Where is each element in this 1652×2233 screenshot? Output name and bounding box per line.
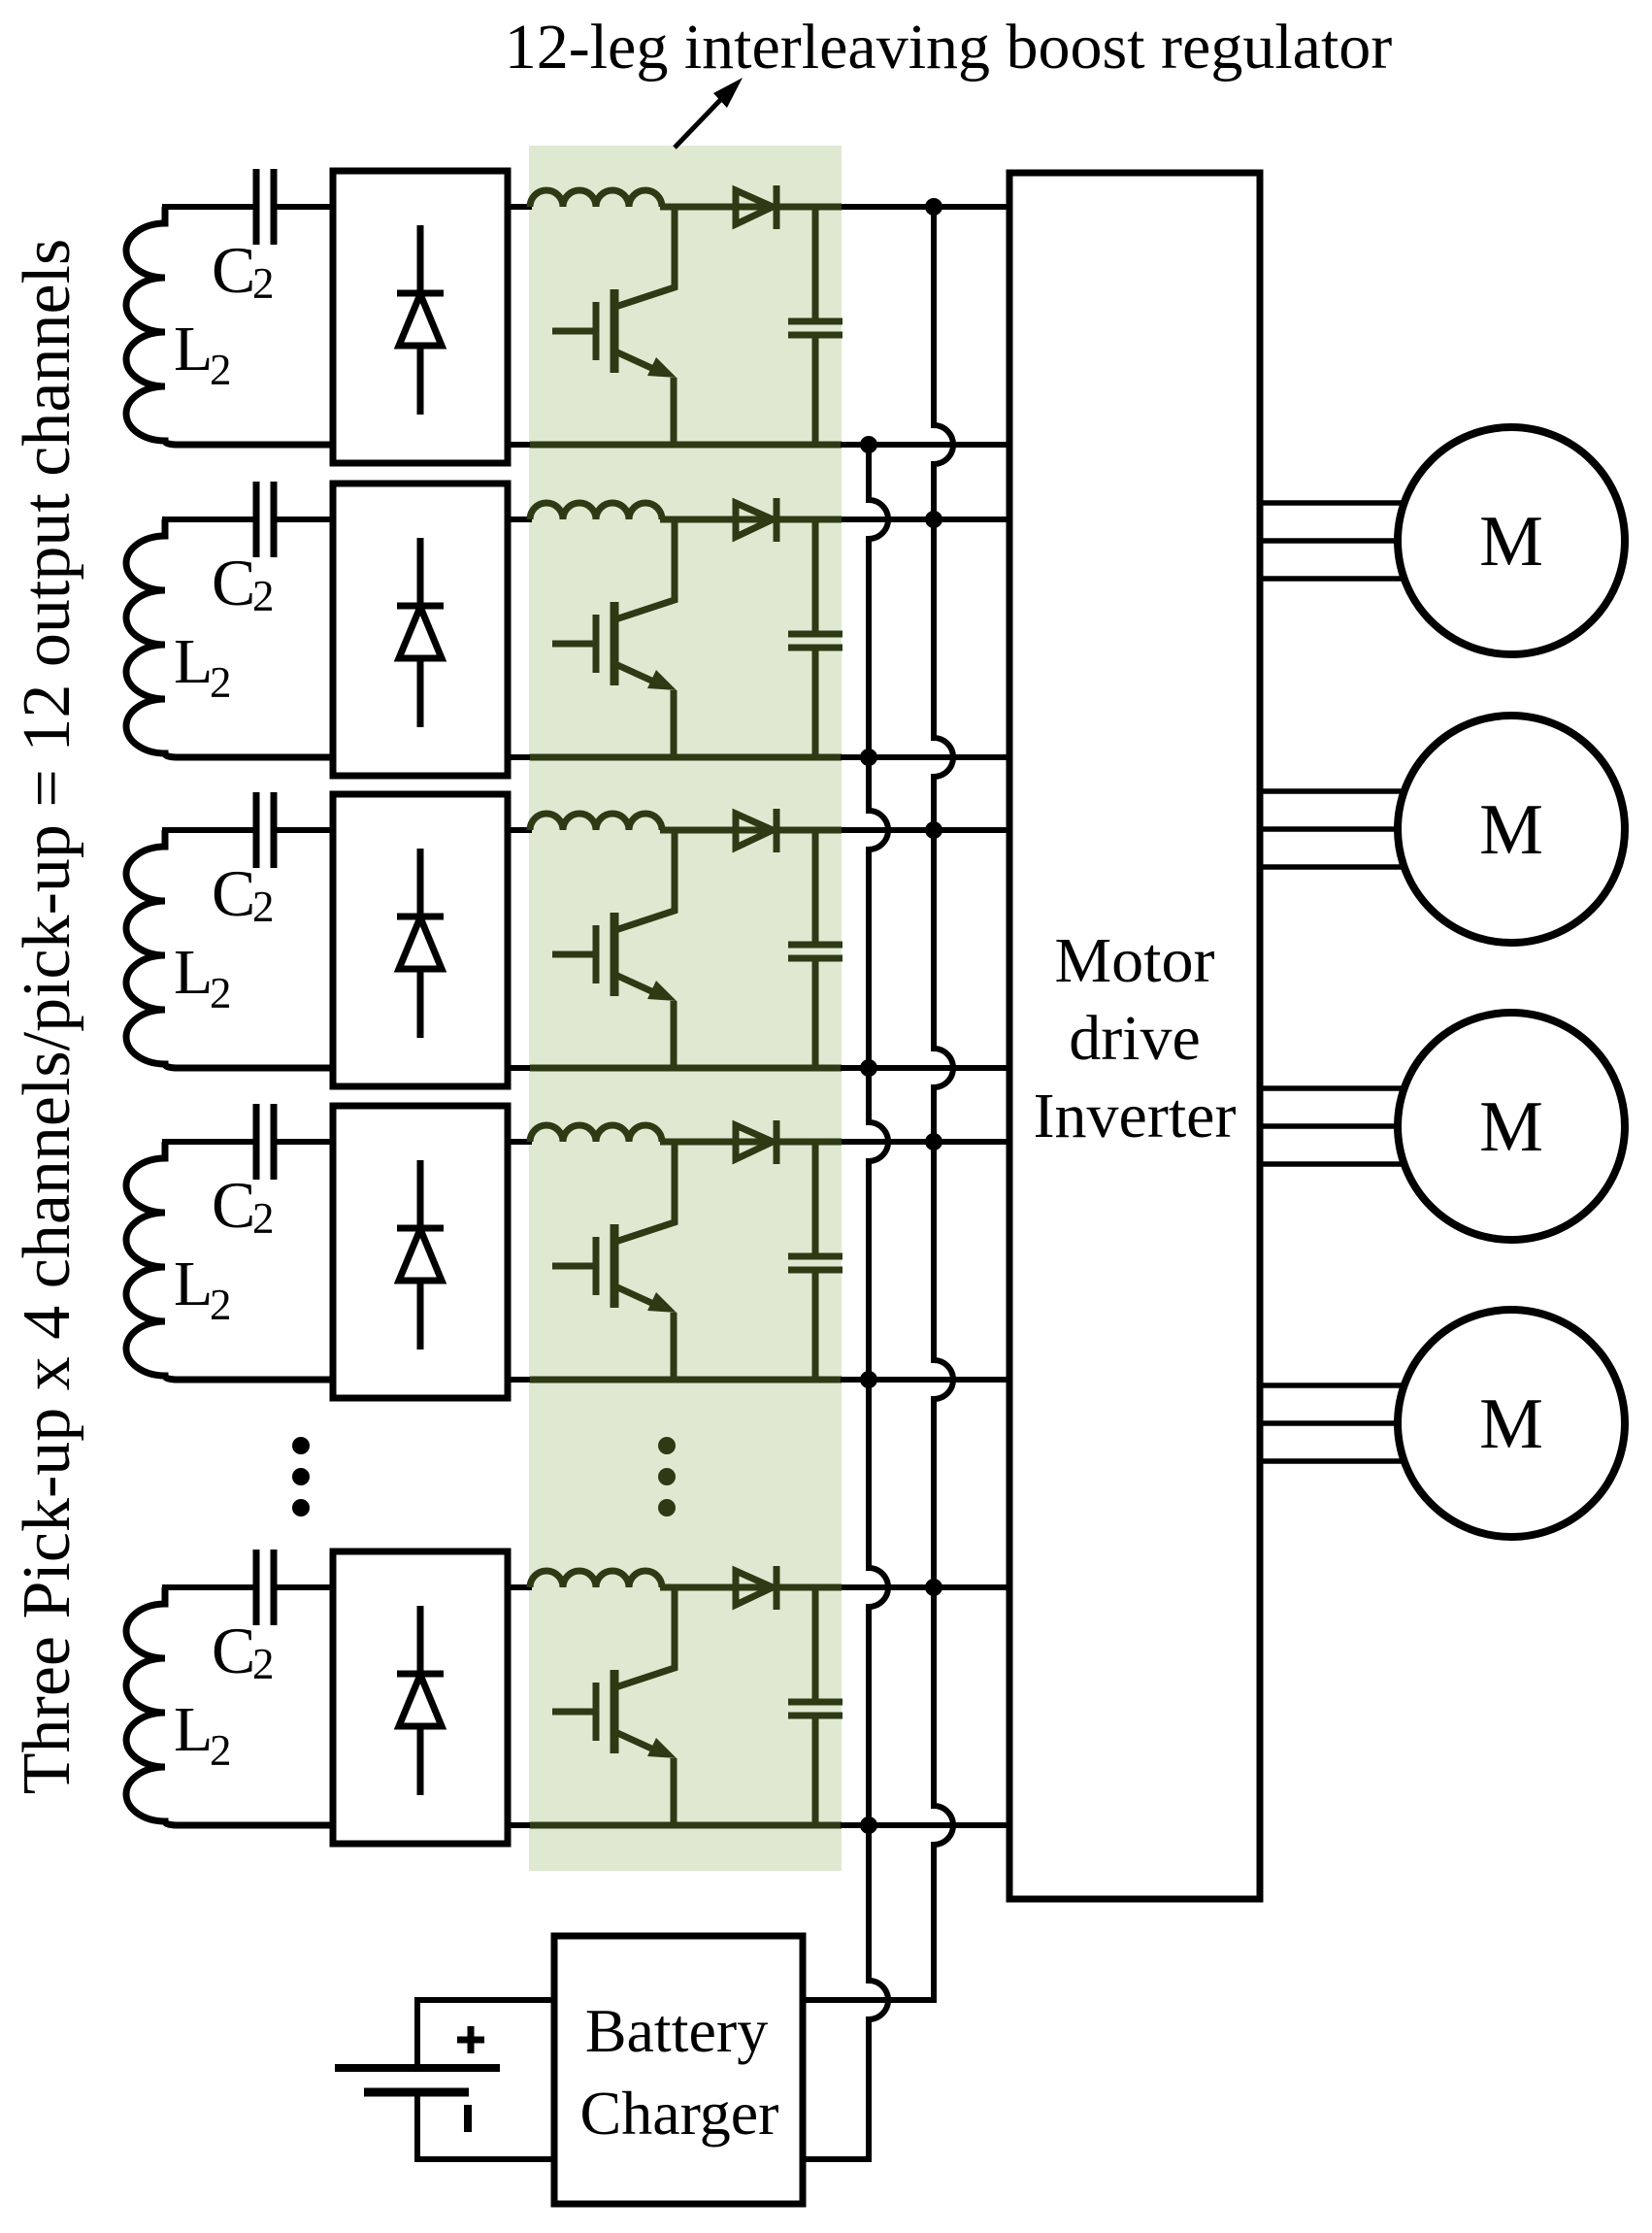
ellipsis dots (boost band, dark green): [658, 1437, 676, 1454]
top wire (row 2): [162, 517, 256, 522]
motor M3 phase wires: [1260, 1085, 1405, 1091]
boost leg top wire (row 5): [660, 1584, 842, 1591]
battery positive plate: [335, 2064, 500, 2072]
output capacitor (row 3): [812, 830, 819, 945]
svg-text:2: 2: [210, 969, 232, 1017]
boost diode (row 3): [736, 814, 773, 848]
rectifier diode (row 4): [417, 1160, 424, 1228]
IGBT (row 4): [611, 1224, 619, 1308]
output capacitor (row 2): [812, 519, 819, 634]
battery wires: [417, 2000, 554, 2068]
rectifier box (row 2): [333, 483, 508, 776]
pickup coil L2 (row 2): [126, 519, 179, 757]
svg-text:M: M: [1479, 1087, 1543, 1167]
svg-text:2: 2: [252, 259, 275, 308]
rectifier box (row 4): [333, 1106, 508, 1398]
svg-text:2: 2: [210, 1281, 232, 1329]
IGBT (row 1): [611, 289, 619, 373]
boost inductor (row 3): [530, 814, 662, 830]
svg-text:Battery: Battery: [585, 1996, 768, 2065]
rectifier box (row 1): [333, 171, 508, 463]
svg-text:12-leg interleaving boost regu: 12-leg interleaving boost regulator: [505, 12, 1393, 83]
svg-text:C: C: [212, 1614, 255, 1687]
ellipsis dots (left, black): [292, 1437, 310, 1454]
bottom wire (row 4): [177, 1377, 335, 1383]
positive DC bus (x=962) with hops over bottom wires: [805, 207, 953, 2000]
boost inductor (row 5): [530, 1571, 662, 1587]
svg-text:L: L: [174, 937, 213, 1008]
boost leg top wire (row 1): [660, 204, 842, 211]
bottom wire (row 1): [177, 442, 335, 449]
output capacitor (row 4): [812, 1142, 819, 1256]
motor M3: [1398, 1013, 1625, 1240]
Battery Charger box: [554, 1936, 803, 2204]
junction dot top bus (row 1): [925, 198, 942, 216]
junction dot top bus (row 5): [925, 1579, 942, 1596]
IGBT collector wire (row 2): [615, 519, 675, 619]
motor M2 phase wires: [1260, 788, 1405, 794]
svg-text:M: M: [1479, 1384, 1543, 1464]
svg-text:Inverter: Inverter: [1034, 1081, 1237, 1151]
green highlight band (12-leg interleaving boost regulator region): [529, 146, 842, 1871]
bottom wire (row 3): [177, 1065, 335, 1072]
junction dot bottom bus (row 1): [860, 436, 877, 453]
junction dot bottom bus (row 3): [860, 1059, 877, 1077]
svg-text:2: 2: [210, 346, 232, 394]
bottom wire (row 5): [177, 1822, 335, 1829]
boost leg top wire (row 3): [660, 827, 842, 834]
rectifier box (row 3): [333, 794, 508, 1086]
junction dot top bus (row 4): [925, 1133, 942, 1150]
pickup coil L2 (row 5): [126, 1587, 179, 1825]
IGBT (row 5): [611, 1670, 619, 1753]
svg-text:Motor: Motor: [1055, 925, 1215, 996]
svg-text:L: L: [174, 626, 213, 697]
top wire (row 3): [162, 827, 256, 833]
IGBT (row 2): [611, 602, 619, 685]
svg-text:C: C: [212, 546, 255, 619]
boost inductor (row 1): [530, 190, 662, 207]
boost inductor (row 2): [530, 503, 662, 519]
junction dot bottom bus (row 2): [860, 749, 877, 766]
svg-text:2: 2: [252, 572, 275, 620]
series capacitor C2 (row 1): [253, 169, 260, 245]
top wire (row 4): [162, 1139, 256, 1145]
IGBT (row 3): [611, 913, 619, 996]
output capacitor (row 1): [812, 207, 819, 321]
motor M4: [1398, 1310, 1625, 1537]
svg-text:2: 2: [252, 883, 275, 931]
motor M4 phase wires: [1260, 1383, 1405, 1388]
top wire (row 5): [162, 1584, 256, 1590]
rectifier diode (row 3): [417, 849, 424, 917]
battery negative plate: [364, 2088, 469, 2097]
motor M2: [1398, 716, 1625, 943]
boost diode (row 5): [736, 1571, 773, 1605]
svg-text:Charger: Charger: [580, 2079, 779, 2148]
svg-text:L: L: [174, 1694, 213, 1765]
series capacitor C2 (row 5): [253, 1550, 260, 1625]
boost inductor (row 4): [530, 1125, 662, 1142]
pickup coil L2 (row 3): [126, 830, 179, 1068]
rectifier box (row 5): [333, 1551, 508, 1844]
boost diode (row 2): [736, 503, 773, 537]
series capacitor C2 (row 3): [253, 792, 260, 868]
boost diode (row 1): [736, 190, 773, 224]
rectifier diode (row 1): [417, 225, 424, 293]
negative DC bus (x=895) with hops over top wires: [805, 445, 888, 2159]
junction dot bottom bus (row 5): [860, 1816, 877, 1834]
series capacitor C2 (row 4): [253, 1104, 260, 1180]
motor M1 phase wires: [1260, 500, 1405, 506]
series capacitor C2 (row 2): [253, 482, 260, 557]
svg-text:2: 2: [252, 1194, 275, 1243]
motor M1: [1398, 427, 1625, 654]
bottom wire (row 2): [177, 754, 335, 761]
battery minus mark: [464, 2105, 472, 2132]
svg-text:2: 2: [210, 658, 232, 707]
boost diode (row 4): [736, 1125, 773, 1159]
IGBT collector wire (row 3): [615, 830, 675, 930]
IGBT collector wire (row 4): [615, 1142, 675, 1242]
svg-text:C: C: [212, 233, 255, 307]
battery plus sign: [457, 2037, 484, 2044]
boost leg top wire (row 4): [660, 1139, 842, 1146]
junction dot top bus (row 2): [925, 511, 942, 528]
svg-text:drive: drive: [1069, 1003, 1201, 1074]
junction dot top bus (row 3): [925, 821, 942, 839]
svg-text:2: 2: [210, 1726, 232, 1775]
rectifier diode (row 2): [417, 538, 424, 606]
svg-text:L: L: [174, 314, 213, 384]
svg-text:M: M: [1479, 790, 1543, 870]
svg-text:M: M: [1479, 502, 1543, 582]
svg-text:C: C: [212, 1168, 255, 1242]
svg-text:Three Pick-up x 4 channels/pic: Three Pick-up x 4 channels/pick-up = 12 …: [10, 239, 84, 1794]
rectifier diode (row 5): [417, 1606, 424, 1674]
annotation arrow: [675, 97, 723, 148]
junction dot bottom bus (row 4): [860, 1371, 877, 1388]
pickup coil L2 (row 4): [126, 1142, 179, 1380]
svg-text:L: L: [174, 1249, 213, 1319]
top wire (row 1): [162, 204, 256, 210]
boost leg top wire (row 2): [660, 517, 842, 523]
IGBT collector wire (row 1): [615, 207, 675, 307]
output capacitor (row 5): [812, 1587, 819, 1702]
charger output wires: [803, 1997, 937, 2003]
svg-text:C: C: [212, 856, 255, 930]
Motor drive Inverter box: [1009, 173, 1260, 1899]
IGBT collector wire (row 5): [615, 1587, 675, 1687]
pickup coil L2 (row 1): [126, 207, 179, 445]
svg-text:2: 2: [252, 1640, 275, 1688]
